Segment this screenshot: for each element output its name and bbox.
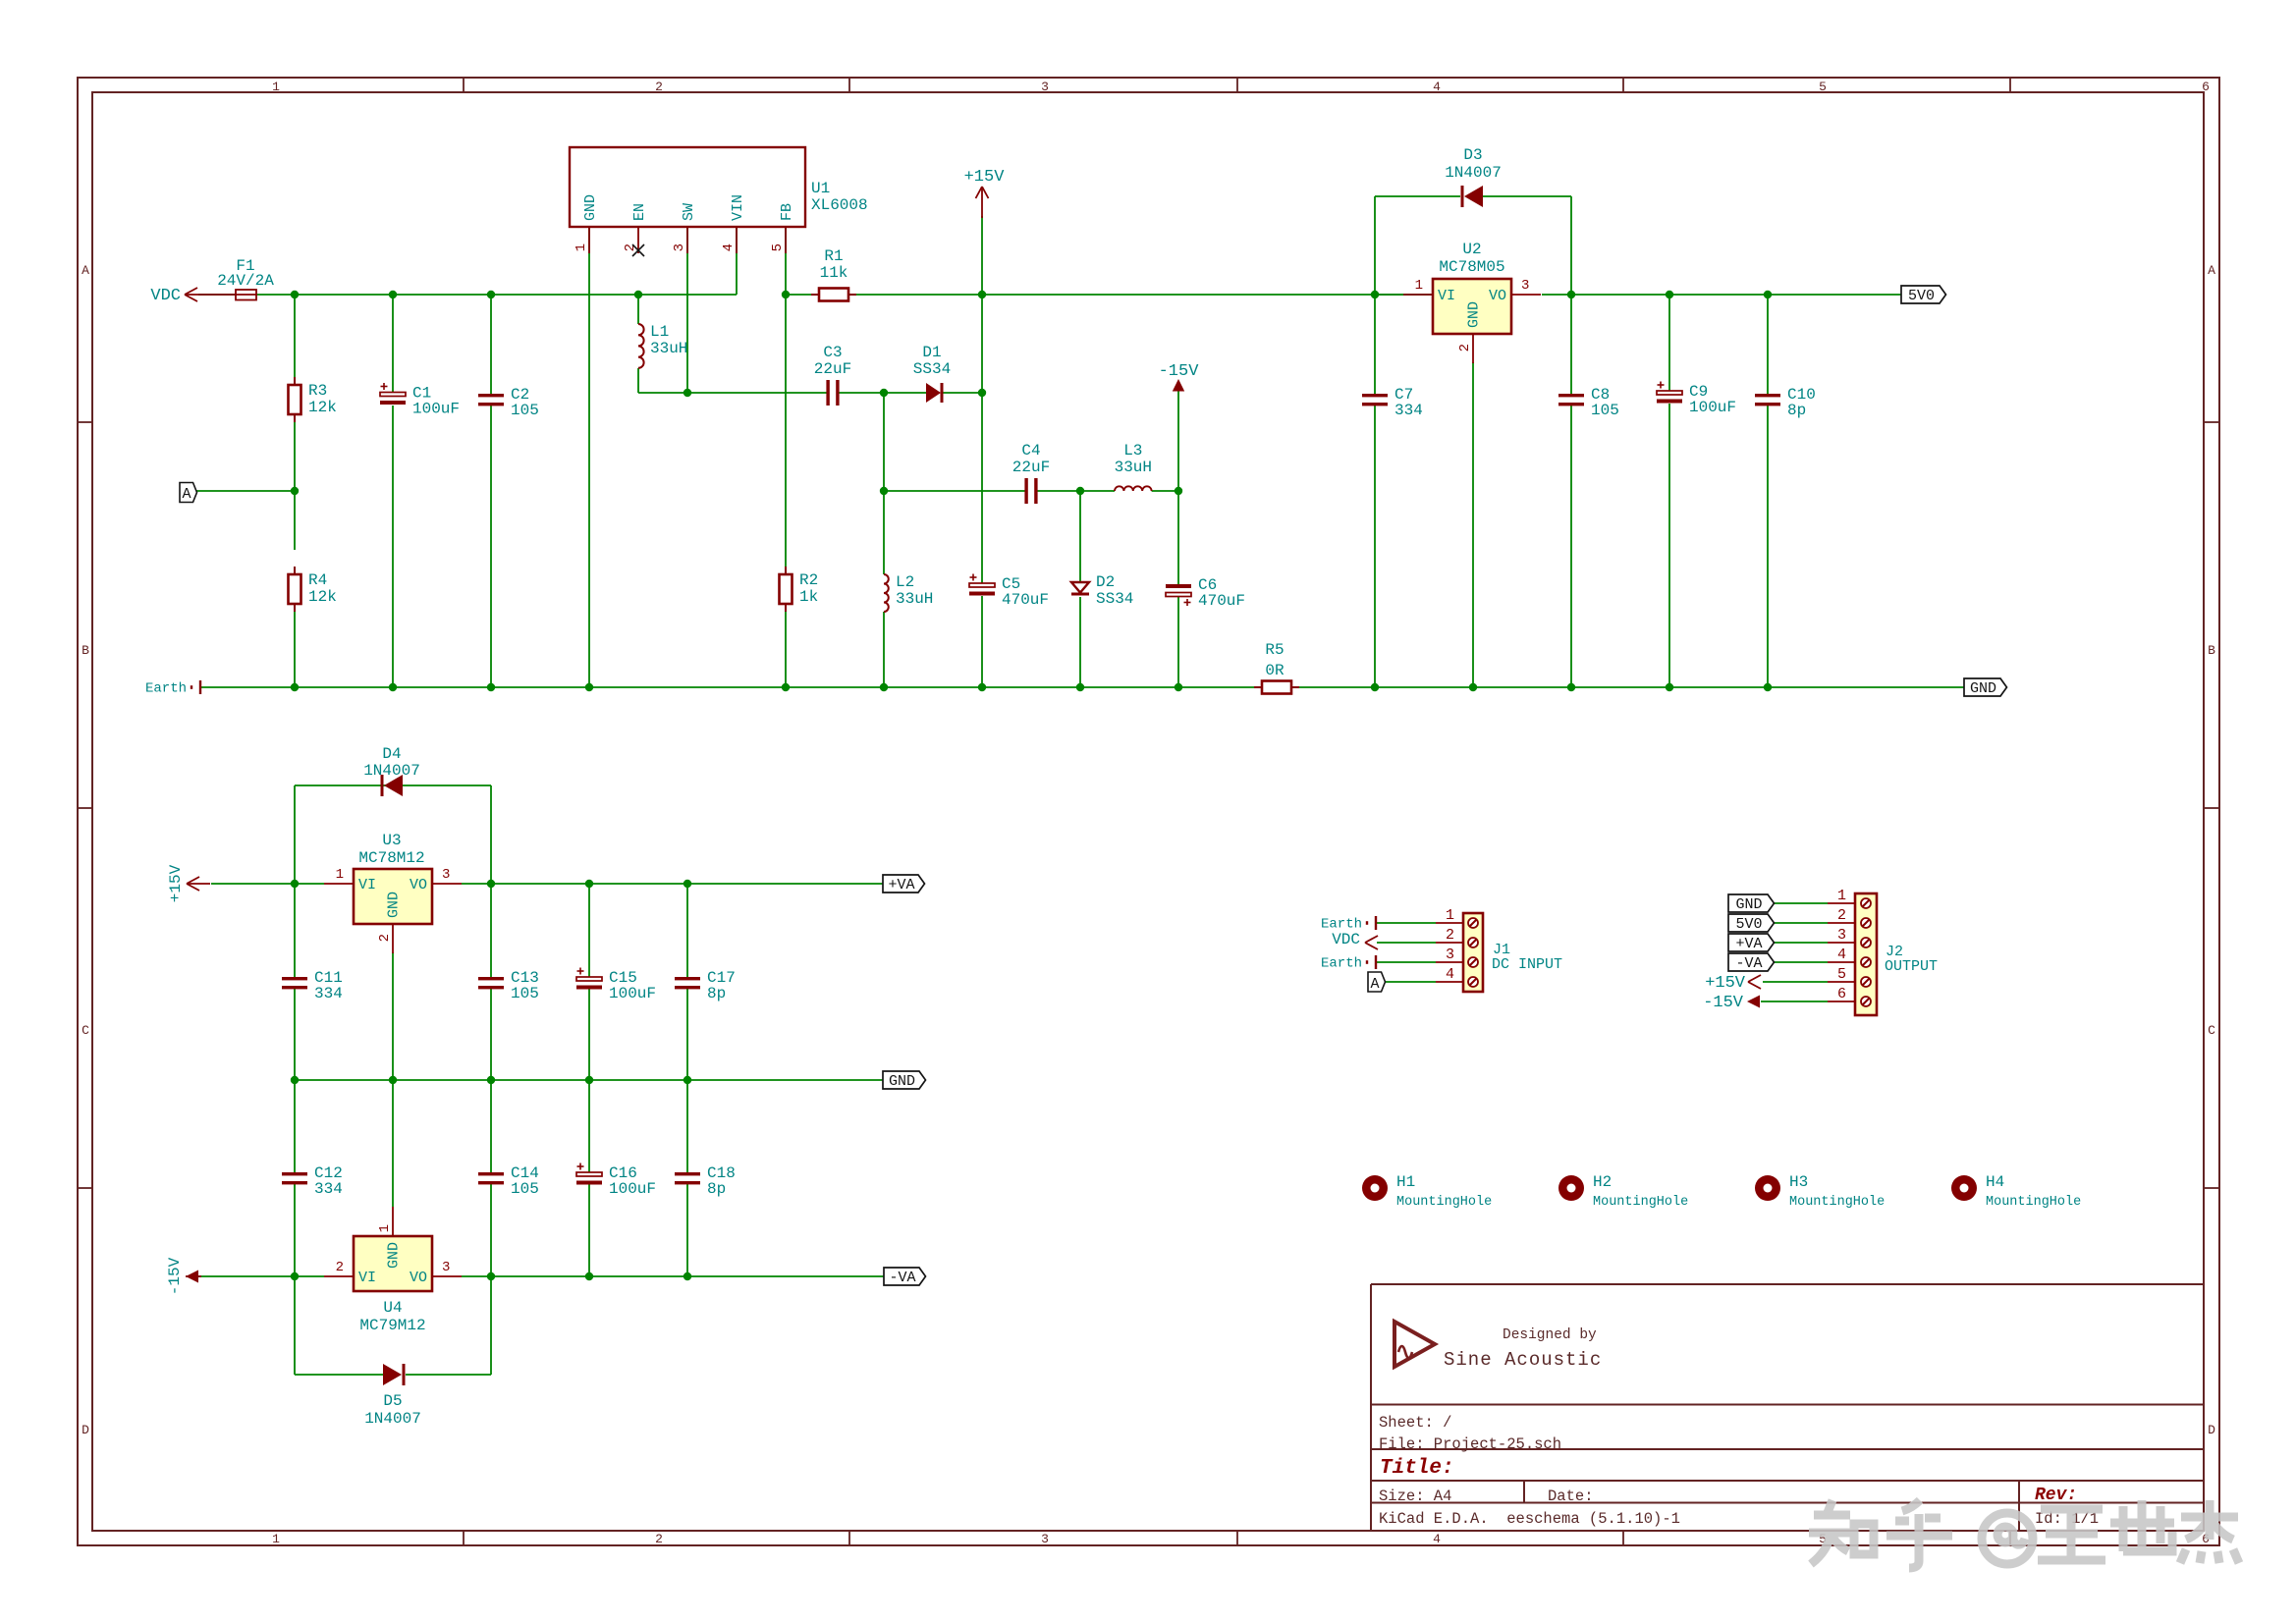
wire J2 pin4 -VA [1774,961,1828,963]
svg-text:2: 2 [1837,907,1846,924]
svg-text:334: 334 [1394,402,1423,419]
inductor L1 [638,323,687,368]
wire FB to R2 [785,295,787,574]
svg-text:33uH: 33uH [650,340,687,357]
J1 pin 2 [1436,927,1478,947]
capacitor C15 [576,968,656,1003]
capacitor C11 [282,969,343,1002]
svg-text:U4: U4 [383,1299,402,1317]
svg-text:H1: H1 [1396,1173,1415,1191]
wire D3 anode side [1375,195,1460,197]
junction [1666,683,1673,691]
capacitor C16 [576,1163,656,1199]
svg-text:GND: GND [386,892,403,918]
svg-text:11k: 11k [820,264,848,282]
svg-text:4: 4 [1433,1532,1441,1546]
hierarchical label GND mid [883,1071,926,1090]
svg-text:4: 4 [1837,947,1846,963]
hierarchical label GND right [1964,678,2007,697]
wire Earth bus left [201,686,1262,688]
wire R1 to U2 VI [856,294,1433,296]
junction [1371,291,1379,298]
wire SW pin drop [686,227,688,393]
U2 pin 3 VO [1489,278,1541,304]
wire L1 to SW node [637,368,639,393]
capacitor C17 [675,969,736,1002]
svg-text:A: A [2208,263,2215,278]
J2 pin 2 [1828,907,1871,928]
svg-text:470uF: 470uF [1002,591,1049,609]
wire R3 to node A [294,414,296,491]
U1 pin 1 GND [574,194,599,253]
power VDC J1 pin2 [1332,931,1378,949]
junction [487,1076,495,1084]
hierarchical label +VA [883,875,925,893]
U3 pin 2 GND [377,892,403,953]
junction [585,880,593,888]
power -15V mid [1159,362,1200,392]
junction [1567,683,1575,691]
svg-text:MountingHole: MountingHole [1396,1195,1492,1210]
watermark zhihu [1809,1500,2239,1568]
junction [880,683,888,691]
IC U1 XL6008 [570,147,868,227]
diode D5 [364,1364,421,1428]
svg-text:GND: GND [1735,896,1762,913]
node A global label [180,483,197,504]
wire +15V net [981,295,983,393]
wire D2 node to L3 [1080,490,1115,492]
svg-text:Earth: Earth [145,681,187,697]
wire C5 to Earth [981,596,983,687]
wire D5 anode side [295,1374,383,1376]
wire bus to C1 [392,295,394,394]
wire J2 pin1 GND [1774,902,1828,904]
capacitor C18 [675,1164,736,1198]
svg-text:2: 2 [377,934,393,942]
wire C4 to D2 node [1036,490,1080,492]
svg-text:R1: R1 [824,247,843,265]
junction [1469,683,1477,691]
wire D5 cathode side [406,1374,491,1376]
svg-text:24V/2A: 24V/2A [217,272,274,290]
junction [291,1076,299,1084]
svg-text:Designed by: Designed by [1503,1327,1597,1343]
capacitor C1 [380,383,460,418]
resistor R4 [289,567,337,612]
wire VIN pin riser [736,227,738,295]
frame row letters [82,263,2215,1437]
svg-text:6: 6 [1837,986,1846,1002]
frame column numbers [272,80,2210,1546]
wire node to L2 [883,491,885,574]
power +15V J2 pin5 [1705,974,1761,993]
wire L1 bottom to SW [638,392,687,394]
junction [683,1272,691,1280]
svg-text:VI: VI [358,1270,376,1286]
wire C9 to Earth [1668,404,1670,687]
diode D1 [913,344,951,403]
svg-text:1N4007: 1N4007 [1445,164,1502,182]
svg-text:3: 3 [1041,80,1049,94]
junction [1567,291,1575,298]
wire J1 pin4 A [1385,981,1436,983]
junction [487,1272,495,1280]
svg-text:OUTPUT: OUTPUT [1885,958,1938,975]
svg-text:-VA: -VA [889,1270,915,1286]
wire +15V to U3 [211,883,295,885]
junction [782,683,790,691]
power Earth left [145,680,200,697]
wire D4 row [295,784,491,786]
svg-text:XL6008: XL6008 [811,196,868,214]
svg-text:Title:: Title: [1380,1457,1454,1480]
wire bus to C2 [490,295,492,394]
junction [1076,487,1084,495]
svg-text:Size: A4: Size: A4 [1379,1488,1451,1505]
svg-text:+15V: +15V [167,864,185,902]
svg-text:U3: U3 [382,832,401,849]
U1 pin 2 EN [623,203,648,253]
svg-text:3: 3 [1446,947,1454,963]
capacitor C13 [478,969,539,1002]
U3 pin 3 VO [410,867,462,893]
svg-text:VIN: VIN [730,194,746,221]
wire Earth bus right [1291,686,1964,688]
U3 pin 1 VI [324,867,376,893]
svg-text:MC78M05: MC78M05 [1439,258,1504,276]
hierarchical label +VA J2 [1728,934,1775,952]
svg-text:A: A [1370,976,1379,993]
wire to D2 [1079,491,1081,582]
svg-text:B: B [2208,643,2215,658]
wire J1 pin1 Earth [1377,922,1436,924]
junction [585,1076,593,1084]
wire D3 left drop [1374,196,1376,295]
svg-text:R4: R4 [308,571,327,589]
wire C6 to Earth [1177,596,1179,687]
U4 pin 3 VO [410,1260,462,1286]
junction [389,683,397,691]
svg-text:0R: 0R [1265,662,1285,679]
J2 pin 4 [1828,947,1871,967]
U1 pin 4 VIN [721,194,746,253]
svg-text:H4: H4 [1986,1173,2004,1191]
svg-text:VO: VO [410,877,427,893]
wire to C9 [1668,295,1670,391]
svg-text:D1: D1 [922,344,941,361]
node A label at J1 pin4 [1368,972,1386,993]
wire J1 pin2 VDC [1377,942,1436,944]
wire C10 to Earth [1767,406,1769,687]
U2 pin 1 VI [1403,278,1455,304]
wire J2 pin6 -15V [1761,1001,1828,1002]
wire C11 to GND row [294,989,296,1080]
svg-text:8p: 8p [707,985,726,1002]
svg-text:1: 1 [272,1532,280,1546]
svg-text:+VA: +VA [888,877,914,893]
junction [978,291,986,298]
svg-text:VDC: VDC [1332,931,1360,948]
wire -15V to U4 [198,1275,295,1277]
svg-text:DC INPUT: DC INPUT [1492,956,1562,973]
wire U3 GND pin down [392,952,394,1080]
svg-text:VO: VO [1489,288,1506,304]
capacitor C2 [478,386,539,419]
wire bus to R3 [294,295,296,385]
svg-text:GND: GND [386,1242,403,1269]
wire U4 VO to -VA [462,1275,884,1277]
svg-text:1N4007: 1N4007 [363,762,420,780]
mounting hole H3 [1755,1173,1885,1210]
J2 pin 3 [1828,927,1871,947]
junction [487,291,495,298]
wire D3 right drop [1570,196,1572,295]
wire R4 to Earth [294,604,296,687]
svg-text:3: 3 [442,867,450,883]
junction [1666,291,1673,298]
svg-text:+15V: +15V [964,168,1006,187]
junction [880,389,888,397]
wire D1 cathode lead [943,392,982,394]
svg-text:MountingHole: MountingHole [1789,1195,1885,1210]
J2 pin 6 [1828,986,1871,1006]
power Earth J1 pin1 [1321,916,1376,933]
hierarchical label -VA [884,1268,926,1286]
svg-text:1: 1 [272,80,280,94]
capacitor C14 [478,1164,539,1198]
svg-text:D3: D3 [1463,146,1482,164]
svg-text:Sine Acoustic: Sine Acoustic [1444,1349,1602,1371]
power -15V left [166,1257,201,1295]
svg-text:12k: 12k [308,399,337,416]
svg-text:4: 4 [721,243,737,251]
IC U3 MC78M12 [354,832,432,924]
svg-text:VI: VI [358,877,376,893]
wire D5 left drop [294,1276,296,1375]
capacitor C4 [1012,442,1050,504]
svg-text:SS34: SS34 [1096,590,1133,608]
svg-text:8p: 8p [1787,402,1806,419]
svg-text:-VA: -VA [1735,955,1762,972]
wire C16 to -VA row [588,1184,590,1276]
junction [683,1076,691,1084]
junction [683,880,691,888]
svg-text:100uF: 100uF [412,401,460,418]
U1 pin 5 FB [770,203,795,253]
wire to U3 VI [295,883,324,885]
svg-text:5: 5 [770,243,786,251]
J1 pin 4 [1436,966,1478,987]
wire C14 to -VA row [490,1184,492,1276]
wire to C13 [490,884,492,977]
svg-text:105: 105 [511,1180,539,1198]
svg-text:3: 3 [442,1260,450,1275]
wire to C4 [884,490,1027,492]
svg-text:4: 4 [1446,966,1454,983]
wire D1 anode lead [884,392,926,394]
svg-text:2: 2 [655,1532,663,1546]
svg-text:105: 105 [1591,402,1619,419]
wire to C14 [490,1080,492,1172]
wire L2 to Earth [883,612,885,687]
svg-text:-15V: -15V [1703,994,1744,1012]
J1 pin 3 [1436,947,1478,967]
wire J1 pin3 Earth [1377,961,1436,963]
wire FB pin drop [785,227,787,295]
company logo [1394,1322,1435,1367]
svg-text:H3: H3 [1789,1173,1808,1191]
mounting hole H4 [1951,1173,2081,1210]
svg-text:VO: VO [410,1270,427,1286]
svg-text:Sheet: /: Sheet: / [1379,1414,1451,1432]
junction [585,1272,593,1280]
junction [782,291,790,298]
wire C7 to Earth [1374,406,1376,687]
wire D2 to Earth [1079,597,1081,687]
svg-text:1N4007: 1N4007 [364,1410,421,1428]
connector J2 OUTPUT [1855,893,1938,1015]
wire to C18 [686,1080,688,1172]
wire node to C6 [1177,491,1179,584]
svg-text:1k: 1k [799,588,818,606]
svg-text:8p: 8p [707,1180,726,1198]
capacitor C9 [1657,382,1736,417]
title block frame [1371,1284,2204,1531]
wire J2 pin3 +VA [1774,942,1828,944]
U4 pin 2 VI [324,1260,376,1286]
resistor R1 [811,247,856,301]
svg-text:6: 6 [2202,80,2210,94]
svg-text:+15V: +15V [1705,974,1746,993]
wire U2 GND to Earth [1472,362,1474,687]
wire D4 right drop [490,785,492,884]
hierarchical label 5V0 J2 [1728,914,1775,933]
wire C8 to Earth [1570,406,1572,687]
capacitor C6 [1166,576,1245,610]
mounting hole H2 [1558,1173,1688,1210]
svg-text:C: C [2208,1023,2215,1038]
wire J2 pin2 5V0 [1774,922,1828,924]
svg-text:22uF: 22uF [1012,459,1050,476]
svg-text:2: 2 [1457,344,1473,352]
svg-text:VI: VI [1438,288,1455,304]
wire C12 to -VA row [294,1184,296,1276]
wire to C5 [981,393,983,583]
svg-text:VDC: VDC [150,287,181,305]
svg-text:MountingHole: MountingHole [1593,1195,1688,1210]
hierarchical label 5V0 [1901,286,1946,304]
svg-text:GND: GND [889,1073,915,1090]
power +15V left [167,864,210,902]
svg-text:SW: SW [681,203,697,221]
svg-text:A: A [82,263,89,278]
svg-text:1: 1 [574,243,589,251]
svg-text:MountingHole: MountingHole [1986,1195,2081,1210]
svg-text:D: D [82,1423,89,1437]
wire +15V drop [981,216,983,295]
svg-text:100uF: 100uF [609,1180,656,1198]
svg-text:334: 334 [314,1180,343,1198]
junction [1175,683,1182,691]
wire VDC to F1 [198,294,236,296]
svg-text:22uF: 22uF [814,360,851,378]
diode D3 [1445,146,1502,207]
svg-text:D4: D4 [382,745,401,763]
svg-text:L1: L1 [650,323,669,341]
J2 pin 1 [1828,888,1871,908]
svg-text:3: 3 [1521,278,1529,294]
svg-text:C: C [82,1023,89,1038]
IC U2 MC78M05 [1433,241,1511,334]
svg-text:3: 3 [672,243,687,251]
svg-text:MC79M12: MC79M12 [359,1317,425,1334]
wire R2 to Earth [785,612,787,687]
svg-text:C4: C4 [1021,442,1040,460]
svg-text:+VA: +VA [1735,936,1762,952]
wire to C12 [294,1080,296,1172]
svg-text:105: 105 [511,402,539,419]
svg-text:MC78M12: MC78M12 [358,849,424,867]
svg-text:Earth: Earth [1321,956,1362,972]
U1 pin 3 SW [672,203,697,253]
junction [634,291,642,298]
J1 pin 1 [1436,907,1478,928]
IC U4 MC79M12 [354,1236,432,1334]
fuse F1 [204,257,274,300]
wire to C16 [588,1080,590,1172]
svg-text:2: 2 [655,80,663,94]
wire to C15 [588,884,590,977]
wire to C11 [294,884,296,977]
wire D4 left drop [294,785,296,884]
wire U1 GND pin to Earth [588,227,590,687]
hierarchical label -VA J2 [1728,953,1775,972]
wire U2 VO to 5V0 label [1542,294,1901,296]
junction [978,683,986,691]
junction [1175,487,1182,495]
diode D4 [363,745,420,796]
wire J2 pin5 +15V [1763,981,1828,983]
wire bus to L1 [637,295,639,324]
wire GND row [295,1079,883,1081]
svg-text:100uF: 100uF [1689,399,1736,416]
junction [1371,683,1379,691]
mounting hole H1 [1362,1173,1492,1210]
wire U4 GND pin up [392,1080,394,1207]
svg-text:GND: GND [1970,680,1996,697]
wire C18 to -VA row [686,1184,688,1276]
junction [389,291,397,298]
wire to C7 [1374,295,1376,394]
junction [683,389,691,397]
inductor L3 [1115,442,1152,491]
svg-text:2: 2 [336,1260,344,1275]
svg-text:C3: C3 [823,344,842,361]
wire C15 to GND row [588,989,590,1080]
power VDC [150,287,204,305]
resistor R2 [780,567,819,612]
svg-text:U2: U2 [1462,241,1481,258]
junction [291,880,299,888]
svg-text:U1: U1 [811,180,830,197]
junction [1076,683,1084,691]
wire to C10 [1767,295,1769,394]
junction [291,683,299,691]
wire D5 right drop [490,1276,492,1375]
wire L3 to C6 node [1152,490,1178,492]
wire C3 node down [883,393,885,491]
